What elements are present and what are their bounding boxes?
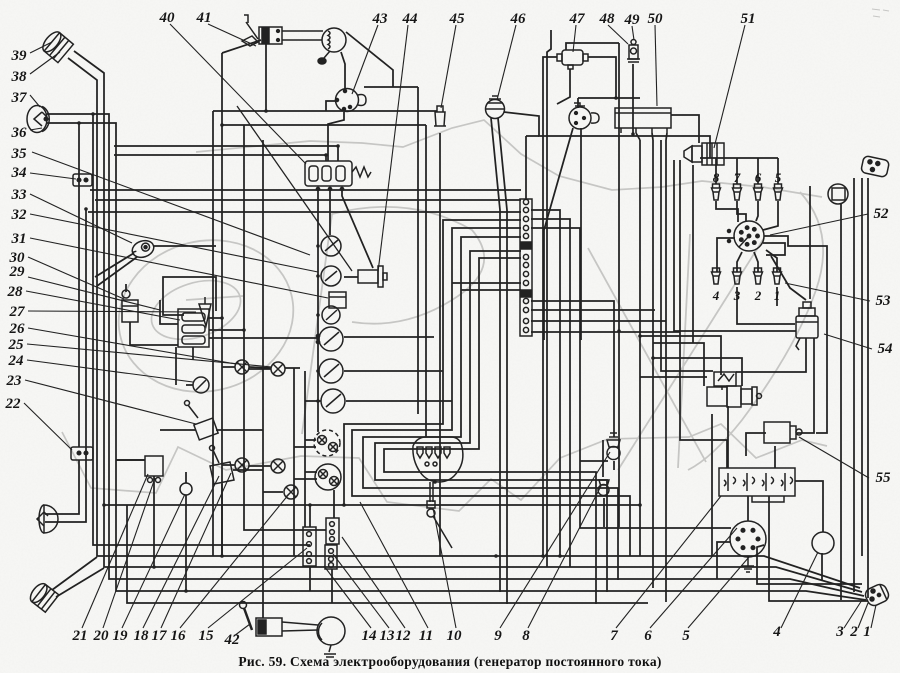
motor 51 bbox=[684, 143, 724, 165]
leader 9 bbox=[500, 452, 610, 628]
horn button 43 bbox=[336, 89, 367, 112]
label 4 bbox=[772, 624, 781, 640]
watermark letter O inner2 bbox=[144, 270, 248, 350]
leader 47 bbox=[573, 25, 576, 52]
wire bbox=[294, 446, 316, 448]
wire bbox=[192, 347, 194, 360]
svg-text:27: 27 bbox=[9, 304, 26, 320]
label 42 bbox=[224, 632, 241, 648]
svg-text:Рис. 59. Схема электрооборудов: Рис. 59. Схема электрооборудования (гене… bbox=[238, 654, 661, 669]
label 14 bbox=[362, 628, 378, 644]
wire bbox=[74, 51, 862, 592]
wire bbox=[498, 118, 507, 604]
starter 42 motor bbox=[317, 617, 345, 657]
leader 48 bbox=[608, 25, 628, 44]
leader 55 bbox=[799, 437, 869, 478]
plug terminal 4 bbox=[712, 268, 721, 284]
wire bbox=[222, 40, 261, 53]
svg-text:5: 5 bbox=[682, 628, 690, 644]
pin label 6 top bbox=[755, 170, 762, 185]
label 33 bbox=[11, 187, 28, 203]
watermark letter O bbox=[102, 222, 309, 410]
wire bbox=[344, 336, 434, 338]
wire bbox=[737, 287, 795, 324]
magneto 5 bbox=[730, 521, 766, 572]
leader 13 bbox=[333, 554, 389, 628]
wire bbox=[186, 384, 193, 386]
wire bbox=[249, 465, 271, 467]
plug terminal 7 bbox=[733, 184, 742, 200]
junction bbox=[220, 554, 224, 558]
leader 51 bbox=[714, 25, 745, 148]
label 43 bbox=[372, 11, 389, 27]
wire bbox=[602, 440, 604, 477]
lamp 16c bbox=[284, 485, 298, 499]
wire bbox=[222, 464, 235, 466]
label 32 bbox=[11, 207, 28, 223]
wire bbox=[95, 199, 521, 201]
terminal strip 35 bbox=[520, 199, 532, 336]
svg-text:3: 3 bbox=[733, 288, 741, 303]
wire bbox=[90, 189, 521, 191]
wire bbox=[764, 236, 827, 433]
pin label 2 bottom bbox=[754, 288, 762, 303]
label 27 bbox=[9, 304, 26, 320]
junction bbox=[77, 121, 81, 125]
fuse block 27 bbox=[178, 309, 209, 347]
wire bbox=[221, 53, 223, 556]
wire bbox=[47, 114, 864, 596]
junction bbox=[494, 554, 498, 558]
wire bbox=[580, 460, 608, 462]
switch 23 bbox=[185, 401, 219, 440]
label 7 bbox=[610, 628, 618, 644]
svg-text:47: 47 bbox=[569, 11, 586, 27]
generator bbox=[707, 386, 762, 407]
wire bbox=[531, 219, 570, 567]
wire bbox=[163, 277, 216, 315]
wire bbox=[674, 160, 796, 331]
wire bbox=[777, 158, 779, 184]
svg-text:13: 13 bbox=[380, 628, 396, 644]
switch 47t bbox=[569, 103, 599, 129]
wire bbox=[771, 256, 806, 300]
leader 21 bbox=[82, 474, 148, 628]
wire bbox=[326, 101, 336, 111]
label 8 bbox=[522, 628, 530, 644]
socket 21 bbox=[145, 456, 163, 483]
wire bbox=[331, 569, 333, 603]
svg-text:46: 46 bbox=[510, 11, 527, 27]
wire bbox=[653, 343, 704, 386]
label 20 bbox=[93, 628, 110, 644]
wire bbox=[337, 146, 339, 161]
svg-text:9: 9 bbox=[494, 628, 502, 644]
wire bbox=[116, 459, 145, 461]
junction bbox=[91, 112, 95, 116]
wire bbox=[757, 545, 862, 584]
leader 34 bbox=[30, 173, 76, 179]
wire bbox=[45, 209, 86, 522]
fuse 34 bbox=[73, 174, 92, 186]
svg-text:52: 52 bbox=[874, 206, 890, 222]
label 38 bbox=[11, 69, 28, 85]
wire bbox=[263, 491, 283, 493]
junction bbox=[558, 554, 562, 558]
leader 52 bbox=[770, 214, 868, 235]
wire bbox=[262, 140, 264, 618]
pin label 1 bottom bbox=[774, 288, 781, 303]
leader 20 bbox=[103, 478, 155, 628]
svg-text:28: 28 bbox=[7, 284, 24, 300]
label 6 bbox=[644, 628, 652, 644]
junction bbox=[651, 356, 655, 360]
wire bbox=[329, 189, 331, 235]
bulb 8 bbox=[598, 480, 609, 496]
junction bbox=[264, 109, 268, 113]
wire bbox=[153, 245, 216, 247]
wire bbox=[47, 123, 866, 600]
speedo lamp cluster bbox=[314, 430, 340, 456]
svg-text:35: 35 bbox=[11, 146, 28, 162]
wire bbox=[344, 220, 521, 505]
svg-text:29: 29 bbox=[9, 264, 26, 280]
wire bbox=[665, 140, 667, 602]
wire bbox=[114, 155, 326, 161]
wire bbox=[727, 406, 729, 468]
relay box 31 bbox=[329, 292, 346, 308]
svg-text:11: 11 bbox=[419, 628, 433, 644]
junction bbox=[220, 123, 224, 127]
leader 43 bbox=[352, 25, 378, 94]
bulb 9 bbox=[607, 433, 620, 460]
sender cylinder 44 bbox=[358, 266, 387, 287]
wire bbox=[797, 338, 814, 433]
label 52 bbox=[874, 206, 890, 222]
wire bbox=[652, 140, 654, 588]
junction bbox=[631, 132, 635, 136]
watermark letter P bbox=[302, 207, 484, 434]
leader 36 bbox=[30, 128, 42, 130]
svg-text:40: 40 bbox=[159, 10, 176, 26]
item 46 bbox=[486, 96, 505, 119]
terminal strip 15 bbox=[303, 527, 316, 566]
svg-text:1: 1 bbox=[863, 624, 871, 640]
gauge b bbox=[321, 266, 341, 286]
wire bbox=[384, 258, 596, 604]
wire bbox=[715, 158, 717, 184]
svg-text:15: 15 bbox=[199, 628, 215, 644]
wire bbox=[754, 252, 758, 272]
wire bbox=[333, 490, 335, 518]
wire bbox=[341, 52, 345, 89]
wire bbox=[461, 289, 521, 291]
wire bbox=[95, 253, 134, 277]
wire bbox=[125, 284, 127, 292]
wire bbox=[160, 429, 196, 431]
wire bbox=[716, 201, 738, 222]
fuse block 7 bbox=[719, 468, 795, 502]
svg-text:23: 23 bbox=[6, 373, 23, 389]
svg-text:37: 37 bbox=[11, 90, 28, 106]
leader 29 bbox=[28, 277, 160, 310]
leader 53 bbox=[785, 283, 870, 301]
svg-text:26: 26 bbox=[9, 321, 26, 337]
leader 39 bbox=[30, 42, 52, 53]
wire bbox=[185, 472, 187, 483]
wire bbox=[640, 336, 721, 375]
relay 47 bbox=[557, 50, 588, 69]
wire bbox=[233, 469, 263, 471]
svg-text:51: 51 bbox=[741, 11, 756, 27]
horn body 40a bbox=[259, 27, 323, 44]
svg-text:31: 31 bbox=[11, 231, 27, 247]
label 31 bbox=[11, 231, 27, 247]
wire bbox=[795, 481, 823, 532]
junction bbox=[242, 328, 246, 332]
leader 19 bbox=[122, 494, 185, 628]
label 3 bbox=[835, 624, 844, 640]
svg-text:19: 19 bbox=[113, 628, 129, 644]
leader 31 bbox=[30, 238, 328, 298]
junction bbox=[152, 565, 156, 569]
terminal strip 14 bbox=[326, 518, 339, 544]
wire bbox=[294, 478, 317, 480]
lamp cluster 2 bbox=[315, 464, 341, 490]
wire bbox=[632, 64, 634, 134]
label 46 bbox=[510, 11, 527, 27]
wire bbox=[653, 358, 742, 386]
junction bbox=[433, 480, 437, 484]
wire bbox=[209, 317, 222, 319]
svg-text:8: 8 bbox=[522, 628, 530, 644]
leader 16 bbox=[180, 494, 289, 628]
label 34 bbox=[11, 165, 28, 181]
horn cup bbox=[318, 28, 346, 64]
coil 54 bbox=[796, 302, 818, 350]
lamp 16a bbox=[235, 458, 249, 472]
terminal strip 13 bbox=[325, 545, 337, 569]
wire bbox=[531, 309, 655, 311]
switch 29 bbox=[122, 290, 138, 322]
wire bbox=[88, 211, 521, 213]
label 48 bbox=[599, 11, 616, 27]
junction bbox=[220, 316, 224, 320]
junction bbox=[336, 144, 340, 148]
wire bbox=[853, 178, 855, 592]
label 29 bbox=[9, 264, 26, 280]
svg-text:14: 14 bbox=[362, 628, 378, 644]
wire bbox=[375, 251, 607, 592]
label 39 bbox=[11, 48, 28, 64]
wire bbox=[711, 414, 713, 556]
wire bbox=[763, 243, 785, 255]
gauge a bbox=[321, 236, 341, 256]
label 18 bbox=[134, 628, 150, 644]
watermark zigzag bottom bbox=[62, 424, 827, 511]
headlamp 36 bbox=[27, 106, 49, 133]
plug terminal 6 bbox=[754, 184, 763, 200]
wire bbox=[640, 376, 707, 378]
junction bbox=[541, 554, 545, 558]
wire bbox=[364, 86, 418, 88]
label 2 bbox=[849, 624, 858, 640]
label 37 bbox=[11, 90, 28, 106]
svg-text:32: 32 bbox=[11, 207, 28, 223]
leader 46 bbox=[497, 25, 516, 100]
distributor 52 bbox=[728, 221, 765, 251]
starter relay 55 bbox=[764, 422, 802, 443]
label 25 bbox=[8, 337, 25, 353]
wire bbox=[603, 498, 605, 527]
leader 11 bbox=[360, 502, 428, 628]
ammeter 33i bbox=[316, 327, 343, 351]
svg-text:6: 6 bbox=[755, 170, 762, 185]
wire bbox=[526, 135, 539, 137]
pin label 4 bottom bbox=[712, 288, 720, 303]
wire bbox=[344, 276, 358, 278]
wire bbox=[618, 43, 620, 527]
wire bbox=[661, 140, 713, 371]
svg-text:10: 10 bbox=[447, 628, 463, 644]
svg-text:8: 8 bbox=[713, 170, 720, 185]
lamp bottom left bbox=[27, 581, 59, 612]
gauge 24 bbox=[193, 377, 209, 393]
wire bbox=[222, 124, 426, 126]
wire bbox=[774, 446, 776, 468]
wire bbox=[531, 210, 560, 556]
leader 27 bbox=[28, 311, 196, 312]
wire bbox=[209, 329, 244, 331]
svg-text:3: 3 bbox=[835, 624, 844, 640]
leader 28 bbox=[26, 291, 180, 320]
wire bbox=[363, 237, 618, 580]
wire bbox=[305, 471, 317, 473]
fuse 22 bbox=[71, 447, 93, 460]
lamp 25 bbox=[271, 362, 285, 376]
bus junction bbox=[316, 274, 320, 278]
svg-text:44: 44 bbox=[402, 11, 419, 27]
wire bbox=[265, 43, 267, 111]
headlamp 39 bbox=[40, 29, 74, 63]
wire bbox=[763, 201, 778, 230]
svg-text:43: 43 bbox=[372, 11, 389, 27]
junction bbox=[342, 503, 346, 507]
leader 32 bbox=[30, 214, 318, 272]
label 54 bbox=[878, 341, 894, 357]
wire bbox=[78, 123, 80, 447]
wire bbox=[652, 133, 653, 140]
wire bbox=[249, 368, 271, 370]
svg-text:45: 45 bbox=[449, 11, 466, 27]
wire bbox=[769, 496, 868, 601]
leader 3 bbox=[844, 600, 862, 628]
tail lamp 1 bbox=[863, 582, 891, 608]
wire bbox=[746, 433, 766, 456]
wire bbox=[209, 337, 319, 339]
corner mark bbox=[872, 9, 889, 17]
wire bbox=[613, 461, 615, 470]
wire bbox=[531, 228, 731, 528]
dimmer switch 17 bbox=[210, 446, 235, 485]
label 30 bbox=[9, 250, 26, 266]
wire bbox=[417, 87, 419, 414]
label 53 bbox=[876, 293, 892, 309]
wire bbox=[747, 496, 749, 521]
bus junction bbox=[316, 369, 320, 373]
wire bbox=[531, 301, 614, 437]
leader 2 bbox=[858, 603, 868, 628]
label 9 bbox=[494, 628, 502, 644]
wire bbox=[680, 160, 727, 468]
svg-text:48: 48 bbox=[599, 11, 616, 27]
plug terminal 1 bbox=[773, 268, 782, 284]
wire bbox=[237, 106, 352, 271]
wire bbox=[867, 178, 869, 598]
wire bbox=[544, 128, 573, 340]
leader 40 bbox=[170, 24, 306, 164]
wire bbox=[566, 43, 619, 50]
svg-text:54: 54 bbox=[878, 341, 894, 357]
svg-text:25: 25 bbox=[8, 337, 25, 353]
svg-text:55: 55 bbox=[876, 470, 892, 486]
leader 26 bbox=[28, 328, 236, 364]
label 55 bbox=[876, 470, 892, 486]
svg-text:53: 53 bbox=[876, 293, 892, 309]
wire bbox=[52, 557, 97, 590]
svg-text:2: 2 bbox=[849, 624, 858, 640]
item 19 bbox=[180, 483, 192, 495]
svg-text:50: 50 bbox=[648, 11, 664, 27]
svg-text:38: 38 bbox=[11, 69, 28, 85]
wire bbox=[531, 331, 680, 333]
leader 24 bbox=[27, 360, 193, 382]
wire bbox=[212, 111, 214, 556]
leader 1 bbox=[871, 605, 876, 628]
plug terminal 2 bbox=[754, 268, 763, 284]
wire bbox=[840, 204, 842, 600]
svg-text:5: 5 bbox=[775, 170, 782, 185]
wire bbox=[636, 133, 640, 140]
watermark letter O inner bbox=[186, 296, 243, 300]
label 10 bbox=[447, 628, 463, 644]
lamp 16b bbox=[271, 459, 285, 473]
leader 5 bbox=[688, 557, 749, 628]
wire bbox=[213, 110, 437, 112]
leader 50 bbox=[655, 25, 657, 106]
leader 42 bbox=[234, 624, 250, 636]
regulator 10 bbox=[413, 437, 463, 482]
gauge d bbox=[319, 359, 343, 383]
svg-text:42: 42 bbox=[224, 632, 241, 648]
wire bbox=[737, 201, 746, 222]
wire bbox=[244, 125, 326, 530]
horn 33 bbox=[130, 238, 156, 260]
wire bbox=[557, 69, 570, 104]
wire bbox=[717, 238, 735, 272]
svg-text:34: 34 bbox=[11, 165, 28, 181]
label 13 bbox=[380, 628, 396, 644]
wire bbox=[116, 459, 145, 461]
pin label 3 bottom bbox=[733, 288, 741, 303]
svg-text:4: 4 bbox=[772, 624, 781, 640]
pin label 7 top bbox=[734, 170, 741, 185]
wire bbox=[304, 371, 306, 527]
label 1 bbox=[863, 624, 871, 640]
label 21 bbox=[72, 628, 88, 644]
wire bbox=[809, 186, 811, 299]
wire bbox=[756, 201, 758, 221]
